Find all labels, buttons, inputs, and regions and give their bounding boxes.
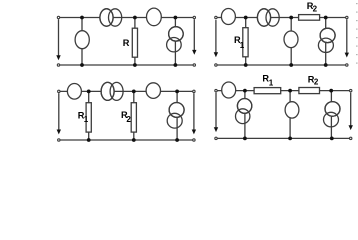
svg-text:2: 2 xyxy=(126,115,131,124)
svg-text:2: 2 xyxy=(313,5,318,14)
svg-text:1: 1 xyxy=(240,41,245,50)
svg-text:1: 1 xyxy=(269,79,274,88)
svg-text:2: 2 xyxy=(314,77,319,86)
svg-text:1: 1 xyxy=(84,115,89,124)
svg-text:R: R xyxy=(123,38,130,48)
